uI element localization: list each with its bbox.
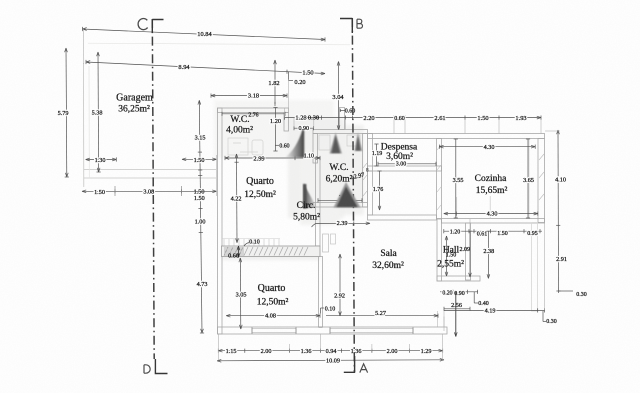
dimension 0.90 door W.C.4 [294, 127, 314, 129]
wall: Cozinha south [442, 219, 545, 224]
dimension 0.40 bracket [473, 292, 475, 303]
dimension 0.10 with hook (quarto) [244, 243, 249, 246]
W.C.6 fixtures [319, 135, 360, 150]
dimension 4.08 [226, 315, 320, 317]
dimension 4.10 right [557, 130, 560, 293]
section marker B [340, 19, 352, 34]
wall: Hall west [437, 219, 442, 281]
garage bottom chain 1.50 3.08 1.50 [82, 190, 217, 192]
dimension 4.19 [444, 309, 545, 311]
wall: W.C.4 east [284, 113, 289, 132]
wall: Hall east [466, 223, 471, 280]
dimension 2.92 vertical [339, 254, 341, 316]
extension near sala corner [437, 311, 439, 327]
hall bottom 0.20 0.90 row [440, 291, 478, 293]
section marker C [152, 20, 163, 34]
dimension 3.04 vertical [338, 62, 340, 130]
window: bottom wall quarto [252, 329, 296, 333]
window end ticks bottom wall [252, 327, 413, 334]
dimension 1.76 vertical [379, 171, 381, 210]
dimension 3.55 vertical [455, 139, 457, 218]
wall: Quarto-lower east [319, 257, 323, 328]
dimension 1.50 vertical hall [446, 236, 448, 276]
W.C.6 east wall hatch marks [363, 163, 367, 196]
kitchen counter lines [456, 197, 458, 219]
dimension 5.79 left [65, 48, 68, 177]
dimension 1.50 horizontal at x199 [182, 158, 217, 160]
dimension 0.10 hook near sala [320, 308, 322, 314]
wall: Quarto-upper east [316, 158, 321, 247]
window: bottom wall sala [330, 329, 413, 333]
wall: exterior east lower [532, 223, 538, 312]
wall stub above W.C.6 [340, 108, 345, 130]
wall: between Quartos (hatched) [222, 246, 321, 257]
wall: Despensa west [368, 134, 373, 172]
dimension 4.30 cozinha top [439, 146, 535, 148]
hall chain 1.20 0.61 1.50 0.91 [444, 230, 542, 232]
boundary line above garage [88, 43, 350, 45]
dimension 2.99 / 1.10 [225, 157, 320, 159]
dimension 4.22 vertical [236, 154, 239, 243]
bottom chain row1 [218, 350, 442, 352]
dimension 8.94 / 1.50 top [86, 62, 325, 74]
dimension chain top y118 [285, 117, 542, 119]
dimension 2.38 vertical [487, 231, 489, 278]
dimension 2.76 small [222, 113, 285, 115]
dimension 5.38 left [97, 52, 100, 172]
wall: Cozinha west [437, 139, 442, 219]
dense hatch patch near 0.60 [225, 247, 243, 256]
walls [218, 108, 545, 335]
tick row above hatched wall [223, 239, 225, 246]
section line C-D dash-dot [152, 19, 154, 359]
dimension 3.18 [211, 95, 287, 97]
wall: W.C.6 south [313, 203, 368, 208]
dimension 0.60 above chain [340, 109, 345, 111]
wall: W.C.6 west [313, 134, 318, 164]
wall: Sala north [368, 215, 437, 220]
dimension 1.19 vertical despensa [376, 144, 378, 166]
dimension 0.30 bracket bottom right [542, 311, 544, 322]
wall: exterior south [218, 327, 448, 334]
dimension 1.82 vertical [274, 60, 276, 104]
dimension 3.00 despensa [378, 163, 436, 165]
left column chain x199 [199, 100, 202, 333]
door frame marks at Circ-Sala [323, 234, 329, 252]
wall: exterior east upper [538, 139, 545, 223]
section marker A [344, 356, 355, 372]
scan smudge background [214, 100, 364, 260]
section marker D [155, 359, 167, 374]
door cone W.C.6 bottom [334, 182, 361, 208]
cozinha west wall hatch marks [437, 145, 441, 210]
dimension 0.60 in W.C.4 [275, 144, 279, 146]
section line B-A dash-dot [352, 18, 354, 373]
paper grain overlay [0, 0, 1, 1]
door swing blob at W.C.4 entry [285, 130, 304, 158]
wall: north of Despensa/Cozinha [368, 134, 545, 139]
dimension 3.65 vertical [527, 139, 529, 218]
extension lines faint [84, 29, 561, 361]
cozinha east wall hatch marks [539, 154, 544, 200]
dimension 3.05 vertical [239, 258, 242, 329]
wall: north of W.C.4 [218, 108, 289, 113]
wall: corridor west [368, 171, 373, 215]
dimension 2.09 vertical hall [469, 231, 471, 277]
dimension 0.30 bracket right [559, 290, 574, 292]
bottom 10.09 line [217, 360, 444, 361]
dimension 10.84 top [83, 29, 326, 40]
door cone W.C.6 right [354, 133, 362, 152]
door swing blob at Circ [304, 184, 317, 209]
dimension 4.30 cozinha bottom [444, 213, 538, 215]
dimension 0.20 hook [288, 72, 290, 81]
wall: W.C.6 east [363, 134, 368, 208]
door cone W.C.6 left [330, 133, 343, 154]
vertical line through 2.56 with bottom arrow [455, 292, 457, 337]
dimension 2.56 [444, 308, 470, 310]
wall: Despensa south [368, 166, 442, 171]
W.C.4 fixtures [228, 138, 263, 155]
wall: W.C.6 north [313, 130, 368, 134]
wall: exterior west [218, 108, 223, 334]
dimension 1.30 garage [86, 159, 117, 161]
dimension 2.39 below Circ [316, 222, 371, 224]
dimension 0.60 wall thickness [238, 246, 240, 258]
dimension 5.27 [326, 315, 438, 317]
wall: Hall south [437, 276, 480, 281]
dimension 2.39 inside W.C.6 [318, 199, 362, 201]
extension ticks below garage chain [114, 186, 116, 196]
garage outline [84, 63, 217, 187]
dimension 1.20 vertical in W.C.4 [275, 108, 277, 152]
